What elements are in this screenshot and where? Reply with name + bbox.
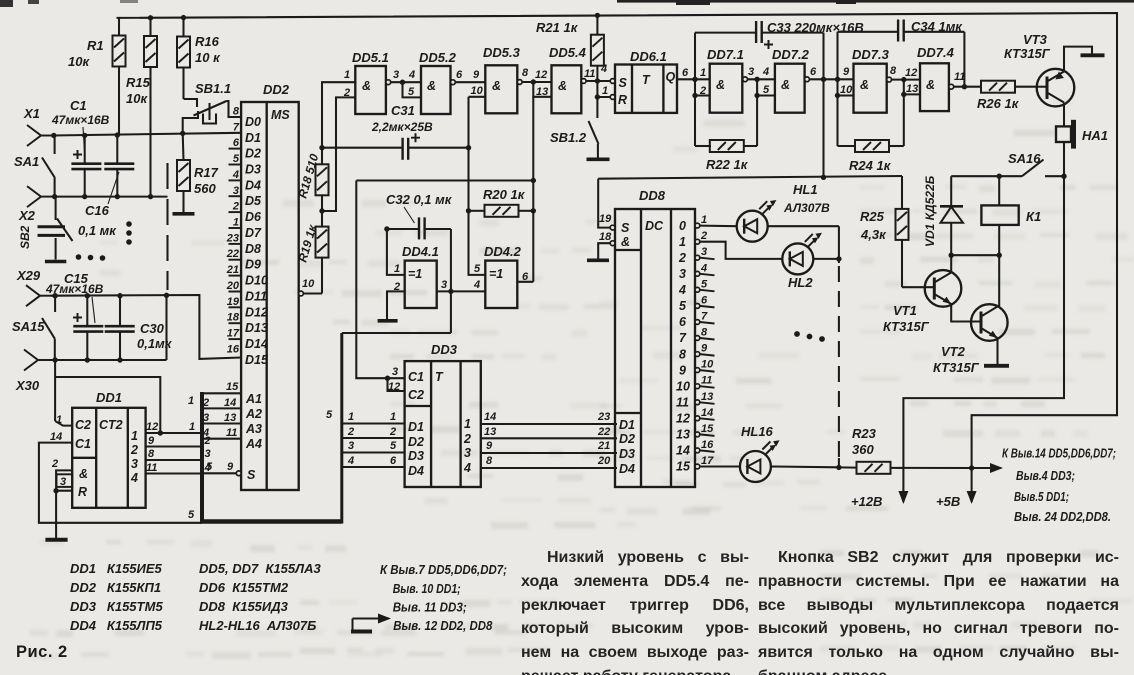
switch SB1.2 with ground	[587, 97, 610, 159]
svg-text:6: 6	[456, 69, 463, 81]
DD2 pin 22 stub	[229, 259, 242, 261]
XOR gate DD4.1	[405, 261, 437, 308]
wire X29 line to DD2 pin D15	[51, 295, 241, 359]
DD2 address pins A1-A4	[202, 393, 241, 438]
component list ground symbol with arrow	[351, 619, 389, 632]
wire DD6.1 Q out to DD7.1 pin 1	[677, 78, 710, 80]
svg-text:D4: D4	[408, 464, 424, 478]
DD2 pin 4 stub	[229, 179, 242, 181]
svg-text:23: 23	[226, 232, 239, 244]
svg-text:1: 1	[700, 67, 706, 79]
svg-text:3: 3	[701, 246, 707, 258]
svg-text:D3: D3	[619, 447, 635, 461]
wire X30 line up to X29 line	[165, 295, 167, 360]
svg-text:1: 1	[233, 217, 239, 229]
DD2 pin 19 stub	[229, 306, 242, 308]
svg-text:1: 1	[394, 263, 400, 275]
wire C31 right to DD5.3 pin 10 and down to R20 and DD4.2 pin 5	[469, 97, 486, 275]
svg-text:D10: D10	[245, 274, 268, 288]
svg-text:4: 4	[463, 461, 471, 475]
svg-text:2: 2	[51, 458, 58, 470]
wire DD4.2 out up to R20/DD5.4 node	[517, 281, 533, 283]
DD8 output pin 3	[695, 255, 700, 260]
DD2 pin 23 stub	[229, 243, 242, 245]
NAND gate DD7.1	[710, 64, 743, 113]
svg-text:C2: C2	[75, 418, 91, 432]
svg-text:20: 20	[226, 280, 240, 292]
svg-text:12: 12	[146, 421, 158, 433]
svg-text:D12: D12	[245, 305, 268, 319]
svg-text:К Выв.14 DD5,DD6,DD7;: К Выв.14 DD5,DD6,DD7;	[1002, 447, 1116, 461]
capacitor C30	[105, 296, 173, 360]
svg-text:47мк×16В: 47мк×16В	[45, 282, 104, 296]
resistor R25	[901, 176, 903, 209]
wire net-5 from DD4.1 output down to bus	[342, 291, 451, 333]
svg-text:13: 13	[906, 83, 918, 95]
transistor VT1	[925, 270, 962, 307]
svg-text:S: S	[247, 468, 256, 482]
svg-text:1: 1	[189, 421, 195, 433]
LED HL2	[700, 242, 783, 259]
svg-text:DD5.2: DD5.2	[419, 50, 457, 65]
DD2 output pin 10 with inversion circle	[299, 291, 304, 296]
svg-text:DD8: DD8	[639, 188, 666, 203]
svg-text:X1: X1	[23, 106, 40, 121]
svg-text:10к: 10к	[68, 54, 90, 69]
NAND gate DD7.3	[854, 64, 887, 113]
svg-text:13: 13	[484, 426, 496, 438]
svg-text:15: 15	[226, 381, 239, 393]
svg-text:6: 6	[810, 66, 817, 78]
svg-text:C1: C1	[408, 370, 424, 384]
wire DD7.1 input node to R22 right	[756, 96, 758, 147]
svg-text:12: 12	[388, 381, 400, 393]
svg-text:S: S	[621, 221, 630, 235]
DD2 pin 18 stub	[229, 322, 242, 324]
svg-text:9: 9	[843, 66, 850, 78]
svg-text:T: T	[435, 370, 444, 384]
DD1 output wires 12,9,8,11 to group bus	[146, 433, 202, 474]
svg-text:2: 2	[700, 230, 707, 242]
svg-text:D4: D4	[619, 462, 635, 476]
svg-text:0,1 мк: 0,1 мк	[78, 223, 117, 238]
switch SA16	[951, 160, 1064, 177]
push-button SB2	[38, 197, 73, 262]
wire R18 top to DD5.1 pin 1	[322, 82, 355, 164]
svg-text:DD7.3: DD7.3	[852, 47, 890, 62]
vertical ellipsis dots	[126, 221, 132, 245]
DD2 pin 3 stub	[229, 195, 242, 197]
svg-text:16: 16	[701, 439, 714, 451]
wire C33 right down to DD7.2 out node and LED feed line	[822, 33, 824, 178]
wire y=180 to DD3 C input	[356, 179, 533, 181]
svg-text:A4: A4	[245, 437, 262, 451]
body text paragraph right	[758, 546, 1119, 675]
DD8 output pin 11	[695, 384, 700, 389]
DD3 output wires to DD8 D1-D4	[481, 424, 617, 468]
svg-text:1: 1	[390, 411, 396, 423]
node X1/SA1	[51, 133, 56, 138]
svg-text:&: &	[492, 79, 501, 93]
svg-text:19: 19	[227, 296, 240, 308]
svg-text:11: 11	[584, 68, 595, 80]
transistor VT2	[971, 304, 1008, 341]
wire DD4.1 out to DD4.2 pin 4	[437, 290, 486, 292]
svg-text:8: 8	[701, 327, 708, 339]
svg-text:4: 4	[232, 169, 239, 181]
svg-text:КТ315Г: КТ315Г	[883, 319, 930, 334]
+5V arrow	[971, 468, 973, 502]
svg-text:X30: X30	[15, 378, 40, 393]
bus exit wires to DD3 D1-D4	[342, 424, 405, 468]
svg-text:18: 18	[227, 312, 240, 324]
svg-text:DD2: DD2	[263, 82, 290, 97]
svg-text:SB2: SB2	[18, 225, 32, 249]
ground at DD1 pins 2,3	[55, 491, 57, 538]
wire C32 left to DD4.1 pin 1	[387, 229, 405, 275]
svg-text:4: 4	[473, 279, 480, 291]
svg-text:VT2: VT2	[941, 344, 966, 359]
svg-text:SA1: SA1	[14, 154, 39, 169]
svg-text:C31: C31	[391, 103, 415, 118]
svg-text:A3: A3	[245, 422, 262, 436]
wire DD5.4 input node down to y=180 line / R20 right / DD4.2 out	[532, 97, 534, 282]
svg-text:4: 4	[678, 283, 686, 297]
svg-text:DD6.1: DD6.1	[630, 49, 667, 64]
svg-text:9: 9	[473, 69, 480, 81]
NAND gate DD5.2	[421, 66, 451, 114]
node X1/R1/C16	[115, 132, 120, 137]
svg-text:3: 3	[393, 69, 399, 81]
svg-text:11: 11	[954, 71, 965, 83]
DD2 pin 17 stub	[229, 338, 242, 340]
svg-text:14: 14	[224, 397, 236, 409]
svg-text:5: 5	[679, 299, 687, 313]
svg-text:DD3: DD3	[431, 342, 458, 357]
svg-text:12: 12	[905, 67, 917, 79]
svg-text:8: 8	[890, 65, 897, 77]
NAND gate DD5.3	[485, 65, 517, 113]
svg-text:Выв.4 DD3;: Выв.4 DD3;	[1016, 469, 1075, 483]
svg-text:D15: D15	[245, 353, 269, 367]
svg-text:Выв. 10 DD1;: Выв. 10 DD1;	[393, 582, 461, 596]
wire R25 to VT1 base	[902, 286, 934, 288]
svg-text:5: 5	[408, 86, 415, 98]
svg-text:К Выв.7 DD5,DD6,DD7;: К Выв.7 DD5,DD6,DD7;	[380, 563, 507, 577]
svg-text:D3: D3	[245, 163, 261, 177]
connector X29	[16, 268, 53, 306]
wire X30 to DD1 C2 with feedback loop from DD1 pin 12	[55, 360, 160, 433]
resistor R20	[485, 205, 519, 217]
svg-text:6: 6	[390, 455, 397, 467]
svg-text:1: 1	[701, 214, 707, 226]
wire R23 right to +5 node	[891, 467, 972, 469]
horizontal ellipsis dots	[76, 254, 106, 261]
svg-text:=1: =1	[489, 267, 503, 281]
component list column 1	[70, 559, 163, 635]
svg-text:12: 12	[535, 69, 547, 81]
capacitor C1	[51, 98, 110, 197]
svg-text:VT3: VT3	[1023, 32, 1048, 47]
wire DD7.2 node / DD8 pin19 / R25 top line	[598, 176, 902, 179]
svg-text:R1: R1	[87, 38, 104, 53]
svg-text:К1: К1	[1026, 209, 1041, 224]
DD8 pin 18 to ground	[610, 241, 615, 246]
svg-text:9: 9	[679, 363, 686, 377]
svg-text:5: 5	[390, 440, 397, 452]
capacitor C16	[78, 135, 134, 238]
svg-text:D6: D6	[245, 210, 262, 224]
svg-text:22: 22	[597, 426, 610, 438]
DD8 output pin 13	[695, 400, 700, 405]
DD8 output pin 15	[695, 432, 700, 437]
connector X2	[18, 186, 54, 223]
svg-text:C16: C16	[85, 203, 110, 218]
svg-text:R23: R23	[852, 426, 877, 441]
svg-text:21: 21	[597, 440, 610, 452]
DD2 pin 1 stub	[229, 227, 242, 229]
svg-text:23: 23	[597, 411, 610, 423]
dashed section separator	[166, 163, 168, 290]
push-button SB1.1	[183, 99, 241, 133]
svg-text:4: 4	[600, 63, 607, 75]
NAND gate DD5.4	[552, 65, 582, 113]
svg-text:2: 2	[347, 426, 354, 438]
svg-text:&: &	[860, 78, 869, 92]
svg-text:14: 14	[701, 407, 713, 419]
VT2 emitter ground	[984, 338, 1009, 366]
svg-text:4: 4	[762, 66, 769, 78]
svg-text:5: 5	[763, 84, 770, 96]
svg-text:+5В: +5В	[936, 494, 960, 509]
svg-text:10: 10	[471, 85, 484, 97]
LED HL16	[700, 465, 740, 467]
svg-text:18: 18	[599, 231, 612, 243]
svg-text:R16: R16	[195, 34, 220, 49]
svg-text:2: 2	[204, 435, 211, 447]
node X1/R17	[180, 131, 185, 136]
svg-text:13: 13	[536, 86, 548, 98]
wire C33 left / R22 left / DD7.1 pin2 node	[695, 33, 711, 146]
svg-text:11: 11	[146, 462, 157, 474]
svg-text:D3: D3	[408, 449, 424, 463]
svg-text:1: 1	[602, 85, 608, 97]
svg-text:DD1: DD1	[96, 390, 122, 405]
svg-text:HL2: HL2	[788, 275, 813, 290]
svg-text:9: 9	[148, 435, 155, 447]
switch SA1	[42, 137, 55, 197]
component list column 2	[199, 559, 321, 635]
svg-text:10: 10	[302, 278, 315, 290]
resistor R15	[126, 15, 157, 197]
svg-text:Выв.5 DD1;: Выв.5 DD1;	[1014, 490, 1069, 504]
svg-text:19: 19	[599, 213, 612, 225]
svg-text:9: 9	[227, 461, 234, 473]
connector X1	[23, 106, 54, 146]
svg-text:X29: X29	[16, 268, 41, 283]
svg-text:D9: D9	[245, 258, 261, 272]
svg-text:DD5.3: DD5.3	[483, 45, 521, 60]
svg-text:DD5.4: DD5.4	[549, 45, 587, 60]
node X1/C1	[82, 133, 87, 138]
DD2 pin 21 stub	[229, 275, 242, 277]
switch SA15	[42, 297, 55, 360]
svg-text:&: &	[621, 235, 630, 249]
wire HA1 down to SA16 node and +12V run	[903, 142, 1064, 501]
svg-text:A1: A1	[245, 392, 262, 406]
DD8 output pin 16	[695, 448, 700, 453]
LED HL1	[700, 225, 737, 228]
multiplexer DD2	[241, 102, 299, 490]
svg-text:D4: D4	[245, 178, 261, 192]
DD8 output pin 6	[695, 304, 700, 309]
svg-text:C30: C30	[140, 321, 165, 336]
svg-text:D0: D0	[245, 115, 261, 129]
wire DD7.1 out to DD7.2 pins 4,5	[748, 78, 775, 80]
DD8 pin 19 wire from long line	[598, 179, 610, 228]
svg-text:2: 2	[232, 201, 239, 213]
wire C34 left / R24 left / DD7.3 pin 10 node	[838, 32, 856, 146]
figure caption	[16, 643, 68, 662]
DD8 output pin 2	[695, 239, 700, 244]
svg-text:DD7.4: DD7.4	[917, 45, 955, 60]
DD4.1 pin 2 to ground	[387, 291, 405, 319]
svg-text:4: 4	[347, 455, 354, 467]
svg-text:4,3к: 4,3к	[860, 227, 887, 242]
svg-text:13: 13	[224, 412, 236, 424]
svg-text:10к: 10к	[126, 91, 148, 106]
DD8 output pin 1	[695, 223, 700, 228]
svg-text:11: 11	[676, 396, 689, 410]
svg-text:R15: R15	[126, 75, 151, 90]
capacitor C33	[756, 21, 762, 43]
VT1 collector up to VD1/K1 node	[950, 255, 952, 272]
svg-text:16: 16	[227, 343, 240, 355]
svg-text:D2: D2	[408, 435, 424, 449]
svg-text:13: 13	[676, 428, 690, 442]
DD2 strobe pin S (9)	[204, 472, 236, 474]
wire +5V top rail and right-side feed down to +5 node	[117, 13, 1118, 468]
svg-text:3: 3	[348, 440, 354, 452]
svg-text:4: 4	[130, 471, 138, 485]
flip-flop DD6.1	[615, 65, 677, 113]
svg-text:1: 1	[679, 235, 686, 249]
svg-text:9: 9	[486, 440, 493, 452]
svg-text:&: &	[427, 79, 436, 93]
svg-text:R25: R25	[860, 209, 885, 224]
svg-text:2: 2	[130, 443, 138, 457]
svg-text:DD4.1: DD4.1	[402, 244, 439, 259]
svg-text:R20 1к: R20 1к	[483, 187, 526, 202]
svg-text:13: 13	[701, 391, 713, 403]
svg-text:D7: D7	[245, 226, 262, 240]
capacitor C32	[419, 217, 425, 239]
svg-text:3: 3	[233, 185, 239, 197]
svg-text:14: 14	[50, 431, 62, 443]
svg-text:3: 3	[392, 366, 398, 378]
svg-text:VT1: VT1	[893, 303, 917, 318]
svg-text:14: 14	[676, 444, 690, 458]
svg-text:9: 9	[701, 343, 708, 355]
svg-text:10: 10	[676, 379, 690, 393]
DD8 output pin 9	[695, 352, 700, 357]
group bus (thick) DD1/DD2 side	[200, 333, 342, 524]
DD2 pin 5 stub	[229, 164, 242, 166]
DD8 output pin 5	[695, 287, 700, 292]
svg-text:11: 11	[226, 427, 237, 439]
resistor R19	[316, 227, 329, 258]
svg-text:5: 5	[474, 263, 481, 275]
svg-text:VD1 КД522Б: VD1 КД522Б	[923, 175, 937, 247]
svg-text:D1: D1	[245, 131, 261, 145]
svg-text:3: 3	[464, 446, 471, 460]
svg-text:R26 1к: R26 1к	[977, 96, 1020, 111]
svg-text:6: 6	[701, 294, 708, 306]
XOR gate DD4.2	[485, 261, 517, 308]
svg-text:15: 15	[676, 460, 691, 474]
DD2 pin 2 stub	[229, 211, 242, 213]
transistor VT3	[1037, 69, 1075, 107]
svg-text:0: 0	[679, 219, 686, 233]
svg-text:3: 3	[60, 476, 66, 488]
resistor R16	[177, 15, 221, 99]
svg-text:MS: MS	[271, 108, 290, 122]
wire X2 line	[52, 196, 168, 198]
relay K1	[981, 176, 1018, 255]
svg-text:НА1: НА1	[1082, 128, 1108, 143]
svg-text:7: 7	[679, 331, 687, 345]
svg-text:2: 2	[678, 251, 686, 265]
diode VD1	[940, 176, 963, 255]
DD2 pin 20 stub	[229, 291, 242, 293]
svg-text:R: R	[618, 93, 627, 107]
wire DD7.4 input node to R24 right	[903, 94, 905, 146]
svg-text:R21 1к: R21 1к	[536, 20, 579, 35]
VT1 emitter to VT2 base	[951, 304, 981, 322]
resistor R18	[316, 164, 329, 195]
ellipsis dots between HL2 and HL16 rows	[794, 331, 825, 342]
svg-text:Q: Q	[666, 70, 676, 84]
svg-text:560: 560	[194, 181, 216, 196]
svg-text:4: 4	[700, 262, 707, 274]
VT2 collector up to VD1/K1 node	[998, 255, 1000, 306]
svg-text:4: 4	[408, 69, 415, 81]
wire DD7.4 out to R26	[954, 86, 982, 88]
svg-text:&: &	[79, 467, 88, 481]
svg-text:2: 2	[389, 426, 396, 438]
NAND gate DD7.4	[920, 63, 949, 111]
resistor R1	[68, 18, 126, 135]
resistor R17 and its ground	[173, 133, 219, 213]
svg-text:=1: =1	[408, 267, 422, 281]
svg-text:15: 15	[701, 423, 714, 435]
wire DD5.3 out to DD5.4 pins 12,13	[522, 81, 551, 83]
svg-text:DD5.1: DD5.1	[352, 50, 389, 65]
svg-text:D2: D2	[245, 147, 261, 161]
svg-text:20: 20	[597, 455, 611, 467]
NAND gate DD5.1	[355, 66, 386, 114]
resistor R22	[710, 140, 744, 152]
svg-text:12: 12	[676, 412, 690, 426]
svg-text:КТ315Г: КТ315Г	[1004, 46, 1051, 61]
svg-text:C32 0,1 мк: C32 0,1 мк	[386, 192, 453, 207]
svg-text:1: 1	[348, 411, 354, 423]
svg-text:HL16: HL16	[741, 424, 774, 439]
svg-text:+12В: +12В	[851, 494, 882, 509]
svg-text:HL1: HL1	[793, 182, 818, 197]
svg-text:3: 3	[441, 279, 447, 291]
DD2 pin 6 stub	[229, 148, 242, 150]
